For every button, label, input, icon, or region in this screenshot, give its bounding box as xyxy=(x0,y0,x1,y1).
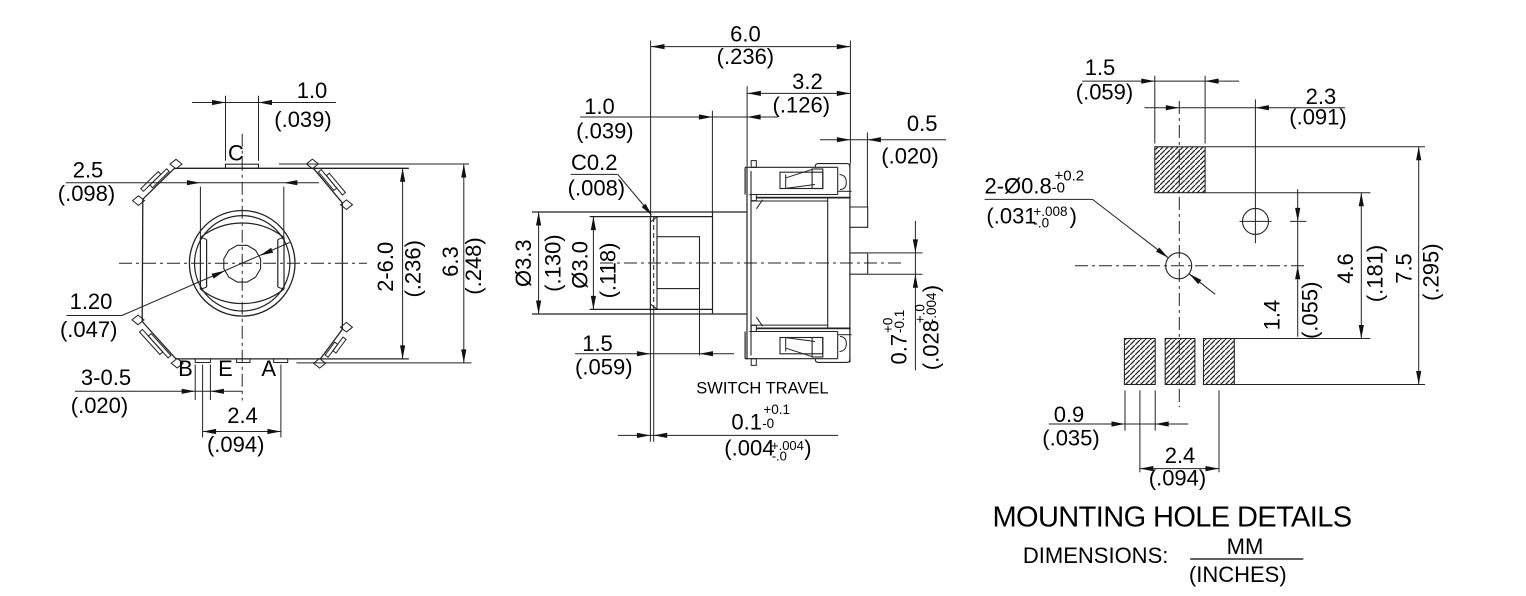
shaft face bottom bevel C0.2 xyxy=(650,304,657,309)
svg-text:(.020): (.020) xyxy=(881,144,938,169)
pin C (top center tab) xyxy=(226,164,259,168)
dim 2.5: extension lines xyxy=(199,187,201,238)
svg-text:(.059): (.059) xyxy=(575,355,632,380)
dim 6.0: dimension line xyxy=(651,46,850,48)
leader 2-dia0.8: diagonal with arrows xyxy=(1093,199,1169,257)
body cavity bottom line xyxy=(751,324,828,326)
middle view: shaft face (released position) xyxy=(649,217,651,310)
flange hook detail xyxy=(840,336,847,351)
svg-text:3.2: 3.2 xyxy=(792,69,823,94)
svg-text:(.126): (.126) xyxy=(773,93,830,118)
dim 1.20 leader diagonal xyxy=(122,243,290,316)
svg-text:1.0: 1.0 xyxy=(584,94,615,119)
right view vertical centerline xyxy=(1178,101,1180,407)
center side pin xyxy=(850,253,868,274)
svg-text:(.039): (.039) xyxy=(576,119,633,144)
dim 1.5 right: dimension line xyxy=(1082,80,1239,82)
latch window xyxy=(780,172,823,188)
svg-text:(.130): (.130) xyxy=(540,234,565,291)
dim dia3.3: dimension line xyxy=(538,212,540,314)
svg-text:(.031: (.031 xyxy=(986,204,1036,229)
dim 2.4 left: extension lines xyxy=(202,365,204,438)
svg-text:(.094): (.094) xyxy=(207,432,264,457)
svg-text:SWITCH TRAVEL: SWITCH TRAVEL xyxy=(696,380,828,398)
dim 6.3: extension lines xyxy=(279,163,469,165)
svg-text:(.055): (.055) xyxy=(1297,282,1322,339)
svg-text:(.035): (.035) xyxy=(1042,426,1099,451)
svg-text:2.4: 2.4 xyxy=(227,403,258,428)
svg-text:1.5: 1.5 xyxy=(582,331,613,356)
left view vertical centerline xyxy=(241,134,243,401)
knob left flat inner line xyxy=(206,240,208,288)
bottom mounting pad 2 (hatched) xyxy=(1165,339,1195,385)
boss bottom edge + dia3.3 extension xyxy=(532,313,747,315)
switch travel reference lines below xyxy=(649,309,651,441)
dim 6.3: dimension line xyxy=(463,164,465,363)
C0.2 leader xyxy=(571,173,618,175)
knob second circle xyxy=(195,216,290,311)
dim 2.3: dimension line xyxy=(1144,107,1345,109)
knob inner ring top arc xyxy=(201,223,284,237)
svg-text:(.295): (.295) xyxy=(1419,243,1444,300)
dim 0.7: extension lines from pin xyxy=(869,252,923,254)
svg-text:0.5: 0.5 xyxy=(907,111,938,136)
dim 1.0 top: extension lines xyxy=(225,96,227,161)
body right wall lower xyxy=(849,328,851,362)
upper side pin xyxy=(850,207,868,227)
knob left flat outer line xyxy=(199,237,201,289)
latch inner vertical xyxy=(785,175,787,189)
svg-text:7.5: 7.5 xyxy=(1392,253,1417,284)
svg-text:A: A xyxy=(261,356,276,381)
body bottom-left chamfer xyxy=(142,322,176,359)
middle view horizontal centerline xyxy=(600,262,905,264)
pad extension lines right side xyxy=(1205,146,1425,148)
dim 1.0 top: dimension line xyxy=(192,102,336,104)
dim 4.6: dimension line xyxy=(1360,193,1362,339)
dim 1.5 right: extension lines xyxy=(1154,76,1156,144)
svg-text:+0: +0 xyxy=(881,318,896,333)
latch lever diagonals xyxy=(786,169,812,178)
svg-text:(.059): (.059) xyxy=(1076,80,1133,105)
svg-text:-.0: -.0 xyxy=(772,449,787,464)
svg-text:): ) xyxy=(1070,204,1077,229)
shaft bottom edge + dia3.0 extension xyxy=(590,308,713,310)
pin E pad xyxy=(237,359,250,363)
svg-text:1.5: 1.5 xyxy=(1085,55,1116,80)
bottom mounting pad 3 (hatched) xyxy=(1204,339,1235,385)
shoulder line xyxy=(756,327,850,329)
svg-text:(.020): (.020) xyxy=(71,393,128,418)
flat edge extension down (1.5 dim) xyxy=(699,289,701,356)
flange corner tab xyxy=(751,359,756,366)
svg-text:1.0: 1.0 xyxy=(297,78,328,103)
corner tab top-right xyxy=(318,170,336,191)
body bottom-right chamfer xyxy=(320,329,342,359)
body right edge xyxy=(341,203,343,329)
body left edge xyxy=(141,199,144,321)
dim 3-0.5: extension lines xyxy=(194,365,196,401)
leader 2-dia0.8: underline xyxy=(985,198,1093,200)
svg-text:(.248): (.248) xyxy=(461,237,486,294)
svg-text:(.094): (.094) xyxy=(1149,466,1206,491)
svg-text:-0: -0 xyxy=(762,416,774,431)
svg-text:(.004: (.004 xyxy=(724,435,774,460)
body top-left chamfer xyxy=(143,168,175,199)
flange corner tab xyxy=(751,161,756,168)
svg-text:(INCHES): (INCHES) xyxy=(1189,562,1287,587)
dim 7.5: dimension line xyxy=(1418,147,1420,385)
body front plate inner line xyxy=(750,171,752,356)
corner tab top-left xyxy=(150,169,169,188)
svg-text:C: C xyxy=(228,141,244,166)
dim 1.0 middle: dimension line xyxy=(580,116,778,118)
svg-text:(.028: (.028 xyxy=(919,320,944,370)
body bottom edge + 2-6.0 extension line xyxy=(176,358,409,360)
mounting hole upper (0.8 dia) xyxy=(1243,208,1269,234)
svg-text:2.5: 2.5 xyxy=(73,158,104,183)
svg-text:MOUNTING HOLE DETAILS: MOUNTING HOLE DETAILS xyxy=(992,502,1351,534)
svg-text:1.20: 1.20 xyxy=(70,289,113,314)
svg-text:1.4: 1.4 xyxy=(1259,300,1284,331)
flange cap (rounded) xyxy=(815,359,850,363)
svg-text:(.047): (.047) xyxy=(60,317,117,342)
left tab near shoulder xyxy=(751,195,756,201)
latch lever diagonals xyxy=(786,348,812,357)
svg-text:(.008): (.008) xyxy=(568,176,625,201)
svg-text:(.039): (.039) xyxy=(274,107,331,132)
knob inner ring bottom arc xyxy=(201,289,284,303)
dim 3.2: dimension line xyxy=(747,92,850,94)
bottom flange outline xyxy=(745,358,838,360)
shaft step vertical xyxy=(712,212,714,314)
dim 3.2: left extension line xyxy=(746,86,748,167)
dim dia3.0: dimension line xyxy=(592,217,594,310)
body cavity top line xyxy=(751,200,828,202)
dim 0.1 travel: dimension line xyxy=(618,434,838,436)
svg-text:+0.1: +0.1 xyxy=(763,402,790,417)
body top-right chamfer xyxy=(313,168,342,203)
flange outline xyxy=(745,166,838,168)
dim 1.0 middle: extension line at step xyxy=(711,111,713,212)
svg-text:(.118): (.118) xyxy=(596,243,621,299)
svg-text:4.6: 4.6 xyxy=(1333,253,1358,284)
shaft face chamfer cone boundary xyxy=(656,217,658,310)
middle view: shaft face pressed position (dashed) xyxy=(653,217,655,309)
bevel diagonal xyxy=(756,317,762,326)
svg-text:(.236): (.236) xyxy=(717,44,774,69)
mounting hole center (0.8 dia) xyxy=(1166,253,1192,279)
dim 0.7: labels (rotated with tolerance) xyxy=(881,310,912,365)
dim 1.4: dimension line xyxy=(1297,189,1299,337)
flange hook detail xyxy=(840,175,847,190)
svg-text:2-6.0: 2-6.0 xyxy=(373,242,398,292)
body top edge + 2-6.0 extension line xyxy=(175,167,409,169)
dim 1.4: tick at hole level xyxy=(1290,220,1306,222)
left tab near shoulder xyxy=(751,325,756,331)
body right wall xyxy=(849,198,851,328)
shaft top edge + dia3.0 extension xyxy=(590,216,713,218)
svg-text:6.0: 6.0 xyxy=(730,22,761,47)
svg-text:0.1: 0.1 xyxy=(731,409,762,434)
bottom mounting pad 1 (hatched) xyxy=(1124,339,1155,385)
pin A pad xyxy=(274,359,288,363)
flange cap (rounded) xyxy=(815,164,850,168)
svg-text:DIMENSIONS:: DIMENSIONS: xyxy=(1023,543,1168,568)
svg-text:0.7: 0.7 xyxy=(887,334,912,365)
pin B pad xyxy=(195,359,210,363)
body right wall upper xyxy=(849,164,851,198)
dim 2.5: dimension line xyxy=(66,182,319,184)
latch lever block xyxy=(812,338,823,358)
svg-text:3-0.5: 3-0.5 xyxy=(81,365,131,390)
svg-text:-.0: -.0 xyxy=(1033,215,1049,230)
svg-text:(.091): (.091) xyxy=(1289,105,1346,130)
shaft face extension above (6.0 dim) xyxy=(650,41,652,217)
knob outer circle xyxy=(189,210,295,316)
knob flat bevels xyxy=(200,237,206,239)
knob center hole (1.20 dia) xyxy=(224,245,261,282)
dim 0.7: dimension line xyxy=(914,221,916,370)
svg-text:MM: MM xyxy=(1227,534,1264,559)
latch inner vertical xyxy=(785,338,787,352)
body front plate outer line xyxy=(746,167,748,360)
svg-text:(.181): (.181) xyxy=(1362,245,1387,302)
shaft flat rectangle xyxy=(657,237,700,289)
dim 1.5: dimension line xyxy=(575,353,734,355)
bottom pad extension lines xyxy=(1124,390,1126,430)
dim 2-6.0: dimension line xyxy=(402,168,404,359)
svg-text:+.0: +.0 xyxy=(913,304,928,323)
top mounting pad (hatched) xyxy=(1155,147,1205,193)
corner tab bottom-right xyxy=(325,342,338,357)
corner tab bottom-left xyxy=(148,334,171,358)
svg-text:Ø3.0: Ø3.0 xyxy=(567,241,592,289)
left view horizontal centerline xyxy=(119,262,367,264)
svg-text:Ø3.3: Ø3.3 xyxy=(511,239,536,287)
knob right flat outer line xyxy=(283,237,285,289)
dim 0.5: dimension line xyxy=(820,139,946,141)
svg-text:B: B xyxy=(178,356,193,381)
dim 2.4 left: dimension line xyxy=(203,431,281,433)
svg-text:+0.2: +0.2 xyxy=(1055,167,1085,184)
knob right flat inner line xyxy=(277,240,279,288)
latch window xyxy=(780,338,823,354)
svg-text:E: E xyxy=(218,356,233,381)
latch lever block xyxy=(812,169,823,189)
dim 2.4 right: dimension line xyxy=(1140,468,1219,470)
body internal vertical line xyxy=(827,198,829,328)
svg-text:6.3: 6.3 xyxy=(438,246,463,277)
hole upper cross lines xyxy=(1240,220,1272,222)
dim 6.0: right extension line (shared with 3.2, 0.5) xyxy=(849,41,851,164)
dim 0.5: extension line at pin end xyxy=(866,133,868,208)
shaft face top bevel C0.2 xyxy=(650,217,657,222)
svg-text:): ) xyxy=(919,285,944,292)
svg-text:): ) xyxy=(804,435,811,460)
svg-text:2-Ø0.8: 2-Ø0.8 xyxy=(985,174,1052,199)
shoulder line xyxy=(756,197,850,199)
dim 1.20 leader underline xyxy=(66,315,122,317)
right view horizontal centerline xyxy=(1075,265,1306,267)
dim 0.9: dimension line xyxy=(1049,423,1188,425)
svg-text:2.4: 2.4 xyxy=(1165,443,1196,468)
svg-text:0.9: 0.9 xyxy=(1054,402,1085,427)
svg-text:(.098): (.098) xyxy=(58,181,115,206)
bevel diagonal xyxy=(756,200,762,209)
boss top edge + dia3.3 extension xyxy=(532,211,747,213)
svg-text:(.236): (.236) xyxy=(401,240,426,297)
dim 3-0.5: dimension line xyxy=(75,390,242,392)
svg-text:C0.2: C0.2 xyxy=(571,150,617,175)
